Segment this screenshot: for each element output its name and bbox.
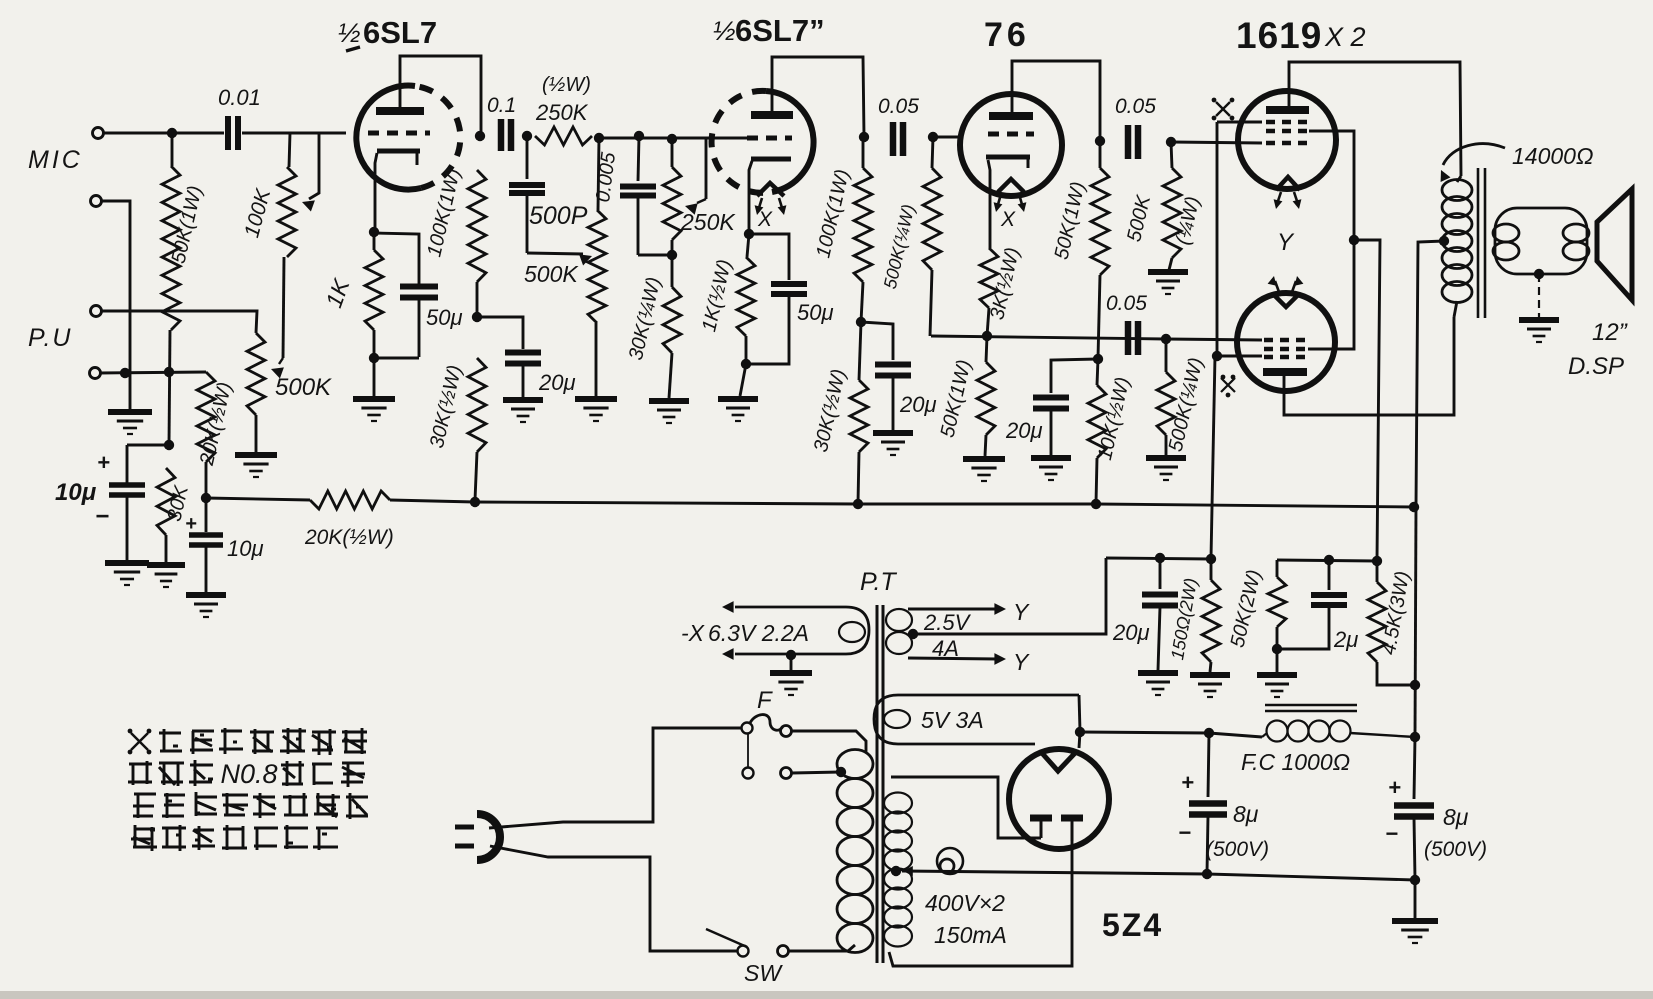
svg-text:+: + — [1181, 770, 1194, 795]
winding 5V — [874, 695, 1079, 744]
resistor 30K — [157, 468, 193, 563]
winding primary — [837, 750, 873, 953]
wire — [374, 358, 419, 396]
wire — [242, 132, 346, 135]
wire — [283, 257, 284, 358]
svg-text:Y: Y — [1277, 229, 1295, 256]
wire screen tie — [1308, 131, 1354, 349]
wire screen node — [1277, 560, 1377, 561]
node 2.5V tap — [908, 629, 918, 639]
tube V2 heater — [755, 183, 787, 231]
svg-text:20K(½W): 20K(½W) — [304, 526, 394, 549]
node — [1212, 351, 1222, 361]
node — [594, 133, 604, 143]
node — [859, 132, 869, 142]
node — [1410, 875, 1420, 885]
svg-text:2μ: 2μ — [1333, 627, 1358, 652]
wire HV center tap — [902, 866, 1207, 876]
svg-text:+: + — [97, 450, 110, 475]
wire 2.5V top — [908, 603, 1006, 615]
resistor 150ohm(2W) — [1167, 559, 1220, 672]
tube V1 1/2 6SL7 envelope — [356, 86, 460, 190]
resistor 100K(1W) V1 plate load — [423, 166, 486, 317]
node — [369, 227, 379, 237]
ground — [1190, 675, 1230, 697]
ground — [1257, 675, 1297, 697]
wire screens to supply — [1354, 240, 1380, 560]
svg-text:(500V): (500V) — [1424, 838, 1487, 861]
wire SW to primary — [789, 945, 855, 951]
label 400Vx2 150mA — [925, 890, 1007, 948]
svg-text:D.SP: D.SP — [1568, 353, 1624, 380]
tube V4 filament leads — [1274, 192, 1302, 209]
ground — [353, 399, 395, 421]
node — [1324, 555, 1334, 565]
wire B+ vertical — [1415, 506, 1416, 737]
input terminal MIC shield — [91, 196, 102, 207]
resistor 3K(1/2W) — [980, 245, 1024, 336]
capacitor 50u V1 cathode — [400, 287, 463, 358]
tube V4 screen grid — [1266, 129, 1308, 134]
tube V1 cathode — [377, 151, 420, 165]
wire V4 plate to OPT — [1289, 62, 1461, 176]
wire 1619 no1 grid — [1171, 142, 1262, 143]
svg-text:X: X — [757, 208, 773, 231]
node — [856, 317, 866, 327]
winding 2.5V — [886, 609, 912, 654]
svg-text:0.05: 0.05 — [1115, 95, 1156, 118]
tube V5 plate — [1263, 368, 1307, 376]
label 1619 x2 — [1236, 15, 1366, 56]
tube V5 control grid — [1264, 338, 1306, 343]
node — [853, 499, 863, 509]
label 12 inch — [1592, 319, 1628, 346]
node — [164, 367, 174, 377]
input terminal PU shield — [90, 368, 101, 379]
arrow to primary — [1441, 144, 1505, 182]
potentiometer 100K — [240, 133, 296, 257]
node — [120, 368, 130, 378]
svg-text:500P: 500P — [529, 202, 588, 230]
tap selector circles — [743, 734, 842, 779]
svg-text:250K: 250K — [680, 209, 736, 235]
potentiometer 500K — [247, 333, 332, 452]
capacitor 20u V2 decoupling — [875, 365, 937, 431]
wire — [100, 372, 206, 373]
tube V4 1619 envelope — [1238, 91, 1336, 189]
svg-text:20μ: 20μ — [538, 370, 576, 395]
ground — [503, 400, 543, 422]
tube V3 grid — [988, 132, 1034, 137]
node secondary center — [1534, 269, 1544, 279]
node — [741, 359, 751, 369]
tube V4 control grid — [1266, 141, 1308, 146]
svg-text:0.05: 0.05 — [1106, 292, 1147, 315]
wire 5V to cathode node — [1079, 695, 1080, 731]
svg-text:X 2: X 2 — [1324, 22, 1366, 52]
ground — [147, 565, 185, 587]
node — [667, 250, 677, 260]
capacitor 0.05 third — [1106, 292, 1147, 355]
capacitor 20u V1 decoupling — [505, 353, 576, 398]
tube V5 1619 envelope — [1237, 293, 1335, 391]
svg-text:6SL7: 6SL7 — [363, 15, 437, 50]
node — [1409, 502, 1419, 512]
label -X 6.3V 2.2A — [681, 620, 809, 646]
svg-text:150mA: 150mA — [934, 922, 1007, 948]
wire V1 cathode — [375, 153, 377, 231]
svg-text:12”: 12” — [1592, 319, 1628, 346]
ground — [1392, 921, 1438, 943]
node — [475, 131, 485, 141]
wire — [477, 317, 523, 349]
wiper arrow 100K pot — [302, 133, 319, 212]
wire — [599, 138, 706, 199]
capacitor 500P — [509, 136, 588, 253]
svg-text:50μ: 50μ — [426, 305, 463, 330]
wire — [101, 201, 130, 410]
wire right plate to HV bottom — [889, 841, 1072, 966]
node — [201, 493, 211, 503]
svg-text:1619: 1619 — [1236, 15, 1322, 56]
node — [1093, 354, 1103, 364]
resistor 30K(1/2W) V2 decoupling — [810, 322, 868, 503]
resistor 100K(1W) V2 plate load — [812, 137, 872, 322]
capacitor 0.05 second — [1115, 95, 1156, 159]
wire — [1414, 880, 1417, 919]
wire — [740, 364, 746, 396]
tube V2 cathode — [751, 157, 791, 162]
wire B- line — [1207, 874, 1415, 880]
capacitor 0.01 — [218, 85, 261, 150]
wire V3 plate to top — [1012, 61, 1100, 140]
transformer core — [877, 605, 883, 963]
resistor 50K(1W) splitter — [937, 336, 995, 456]
ground — [105, 563, 149, 585]
svg-text:5Z4: 5Z4 — [1102, 907, 1163, 943]
ground — [963, 459, 1005, 481]
wire fuse to primary — [791, 731, 866, 752]
resistor 30K(1/4W) tone — [625, 255, 681, 398]
ground — [718, 399, 758, 421]
node — [1095, 136, 1105, 146]
wire — [103, 132, 224, 135]
potentiometer 250K V2 grid — [663, 139, 736, 255]
fuse F — [742, 715, 792, 737]
svg-text:14000Ω: 14000Ω — [1512, 143, 1593, 169]
wire — [101, 311, 257, 333]
svg-text:8μ: 8μ — [1443, 804, 1469, 830]
wire AC lower — [490, 846, 737, 951]
node — [1272, 644, 1282, 654]
node — [1206, 554, 1216, 564]
ground — [649, 401, 689, 423]
resistor 50K(1W) — [162, 133, 207, 445]
node — [786, 650, 796, 660]
wire 2.5V bottom — [908, 653, 1006, 665]
svg-text:2.5V: 2.5V — [923, 610, 972, 635]
potentiometer 500K tone — [524, 138, 606, 396]
svg-text:500K: 500K — [524, 261, 579, 287]
choke FC 1000ohm — [1262, 705, 1415, 742]
resistor 1K — [320, 232, 383, 357]
capacitor 10u first — [55, 445, 145, 560]
capacitor 2u — [1277, 560, 1358, 652]
resistor 20K(1/2W) input — [196, 372, 237, 498]
svg-text:(½W): (½W) — [542, 74, 591, 96]
resistor 4.5K(3W) — [1368, 561, 1415, 685]
wire bias to 2.5V tap — [913, 558, 1106, 634]
wire — [861, 322, 893, 360]
resistor 500K(1/4W) 76 grid leak — [880, 137, 941, 336]
node — [164, 440, 174, 450]
svg-text:−: − — [1385, 821, 1398, 846]
resistor 20K(1/2W) bus — [304, 491, 394, 549]
tube V1 grid — [368, 131, 430, 136]
input terminal MIC hot — [93, 128, 104, 139]
label MIC — [28, 146, 83, 174]
svg-text:½: ½ — [338, 18, 361, 48]
svg-text:P.U: P.U — [28, 324, 72, 352]
wire V2 plate to top — [772, 57, 864, 136]
tube V6 plate right — [1061, 818, 1083, 841]
node primary tap — [836, 767, 846, 777]
tube V1 plate — [376, 107, 424, 115]
svg-text:Y: Y — [1013, 649, 1030, 675]
svg-text:½: ½ — [713, 16, 736, 46]
node OPT center tap — [1439, 236, 1449, 246]
wire heater bias — [1106, 558, 1211, 559]
arrow 6.3V top — [722, 601, 734, 613]
node — [634, 131, 644, 141]
svg-text:-X: -X — [681, 620, 706, 646]
tube V4 filament — [1276, 177, 1300, 190]
svg-text:20μ: 20μ — [1005, 418, 1043, 443]
svg-text:SW: SW — [744, 960, 783, 986]
ground — [186, 595, 226, 617]
wiper arrow 250K pot — [685, 199, 706, 215]
wire — [638, 254, 672, 257]
tube V5 screen grid — [1264, 347, 1306, 352]
node — [472, 312, 482, 322]
tube V4 plate — [1266, 106, 1309, 114]
svg-text:400V×2: 400V×2 — [925, 890, 1005, 916]
svg-text:0.05: 0.05 — [878, 95, 919, 118]
resistor 30K(1/2W) V1 decoupling — [426, 358, 486, 500]
arrow 6.3V bottom — [722, 648, 734, 660]
node — [1372, 556, 1382, 566]
tube V3 plate — [989, 112, 1033, 120]
node — [1349, 235, 1359, 245]
wire V5 plate to OPT — [1284, 317, 1454, 415]
node — [744, 229, 754, 239]
svg-text:MIC: MIC — [28, 146, 83, 174]
node — [1075, 727, 1085, 737]
svg-text:250K: 250K — [535, 100, 589, 125]
wire to 500K wiper — [527, 253, 592, 266]
resistor 10K(1/2W) — [1088, 359, 1134, 503]
wire — [1276, 649, 1279, 672]
svg-text:F.C 1000Ω: F.C 1000Ω — [1241, 749, 1350, 775]
label Y heater — [1277, 229, 1295, 256]
svg-text:10μ: 10μ — [227, 536, 264, 561]
ground — [108, 412, 152, 434]
wire — [1079, 732, 1080, 748]
node — [369, 353, 379, 363]
tube V4 beam grid — [1266, 120, 1308, 125]
resistor 250K coupling — [535, 127, 592, 145]
label Y — [1013, 649, 1030, 675]
svg-text:10μ: 10μ — [55, 479, 97, 506]
svg-text:50μ: 50μ — [797, 300, 834, 325]
capacitor 20u bias — [1112, 558, 1178, 670]
svg-text:P.T: P.T — [860, 568, 897, 596]
svg-text:(500V): (500V) — [1206, 838, 1269, 861]
node — [1161, 334, 1171, 344]
label 1/2 6SL7'' — [713, 13, 825, 48]
node — [1155, 553, 1165, 563]
label SW — [744, 960, 783, 986]
node mic input junction — [167, 128, 177, 138]
node — [1410, 732, 1420, 742]
resistor 50K(2W) — [1227, 560, 1286, 650]
node — [928, 132, 938, 142]
wire secondary to ground — [1538, 274, 1540, 317]
ground — [1031, 458, 1071, 480]
wire V2 grid — [706, 137, 748, 140]
node — [1204, 728, 1214, 738]
tube V6 filament — [1041, 752, 1076, 771]
output transformer secondary — [1493, 208, 1589, 274]
svg-text:0.1: 0.1 — [487, 94, 516, 117]
node — [1091, 499, 1101, 509]
capacitor 8u second — [1385, 737, 1487, 879]
label (1/2W) 250K — [535, 74, 591, 125]
label P.T — [860, 568, 897, 596]
note japanese text — [128, 728, 368, 851]
tube V6 5Z4 envelope — [1009, 749, 1109, 849]
svg-text:8μ: 8μ — [1233, 801, 1259, 827]
AC plug — [455, 814, 500, 860]
svg-text:F: F — [757, 687, 773, 714]
label Y — [1013, 599, 1030, 625]
output transformer primary — [1442, 176, 1472, 317]
capacitor 0.05 first — [878, 95, 919, 156]
label 76 — [984, 16, 1030, 54]
ground — [1519, 320, 1559, 342]
tube V5 filament leads — [1268, 276, 1304, 292]
winding 6.3V — [735, 607, 869, 654]
tube V3 heater — [994, 179, 1027, 231]
tube V2 plate — [751, 111, 793, 119]
wire left plate to HV top — [891, 777, 1041, 838]
node HV center tap — [891, 866, 901, 876]
node — [1166, 137, 1176, 147]
svg-text:6.3V 2.2A: 6.3V 2.2A — [708, 620, 809, 646]
label P.U — [28, 324, 72, 352]
svg-text:N0.8: N0.8 — [221, 759, 278, 789]
svg-text:76: 76 — [984, 16, 1030, 54]
wire AC upper — [489, 728, 741, 828]
label F — [757, 687, 773, 714]
capacitor 10u second — [185, 498, 264, 592]
resistor 500K(1/4W) 1619-2 grid leak — [1157, 339, 1208, 455]
svg-text:0.01: 0.01 — [218, 85, 261, 110]
ground — [1146, 458, 1186, 480]
svg-text:+: + — [1388, 775, 1401, 800]
capacitor 0.1 — [487, 94, 516, 151]
wire — [933, 136, 963, 139]
switch SW — [706, 929, 789, 957]
tube V3 76 envelope — [960, 94, 1062, 196]
label F.C 1000 ohm — [1241, 749, 1350, 775]
resistor 1K(1/2W) — [698, 234, 755, 364]
wire 1619 no2 grid — [1166, 339, 1262, 340]
ground — [575, 399, 617, 421]
label D.SP — [1568, 353, 1624, 380]
capacitor 0.005 — [592, 136, 656, 255]
svg-text:−: − — [95, 503, 109, 530]
label 5V 3A — [921, 707, 984, 733]
scan edge shadow — [0, 991, 1653, 999]
wiper arrow 500K pot — [271, 358, 284, 379]
svg-text:Y: Y — [1013, 599, 1030, 625]
output transformer core — [1478, 168, 1485, 318]
svg-text:20μ: 20μ — [1112, 620, 1150, 645]
ground — [1138, 673, 1178, 695]
svg-text:+: + — [185, 513, 197, 535]
label 5Z4 — [1102, 907, 1163, 943]
capacitor 50u V2 cathode — [746, 234, 834, 364]
label 14000 ohm — [1512, 143, 1593, 169]
terminal HV tap circle — [937, 848, 963, 874]
tube V2 grid — [747, 136, 792, 141]
wire V3 cathode — [988, 160, 990, 248]
wire — [790, 655, 793, 671]
svg-text:20μ: 20μ — [899, 392, 937, 417]
capacitor 20u splitter — [1005, 398, 1069, 456]
ground — [1148, 272, 1188, 294]
tube V3 cathode — [986, 157, 1030, 168]
wire B+ bus left — [206, 498, 310, 500]
svg-text:6SL7”: 6SL7” — [735, 13, 825, 48]
tube V6 plate left — [1030, 818, 1052, 838]
beam mark lower — [1221, 375, 1236, 398]
node — [1410, 680, 1420, 690]
tube V5 beam grid — [1264, 355, 1306, 360]
label 2.5V 4A — [923, 610, 972, 661]
label 1/2 6SL7 — [338, 15, 437, 50]
wire phase splitter node — [931, 336, 1165, 339]
svg-text:500K: 500K — [275, 374, 332, 401]
ground — [235, 455, 277, 477]
node — [1202, 869, 1212, 879]
tube V2 1/2 6SL7 envelope — [712, 91, 814, 193]
node — [470, 497, 480, 507]
resistor 500K(1/4W) 1619-1 grid leak — [1123, 142, 1204, 270]
node — [982, 331, 992, 341]
svg-text:5V 3A: 5V 3A — [921, 707, 984, 733]
wire B+ bus — [390, 500, 1414, 507]
wire beam electrodes — [1211, 122, 1262, 558]
wire — [374, 233, 419, 284]
beam mark upper — [1212, 98, 1235, 121]
tube V5 filament — [1274, 295, 1298, 307]
speaker 12in DSP — [1597, 189, 1632, 300]
ground — [770, 673, 812, 695]
wire — [1051, 359, 1098, 393]
winding HV 400Vx2 — [884, 793, 912, 947]
